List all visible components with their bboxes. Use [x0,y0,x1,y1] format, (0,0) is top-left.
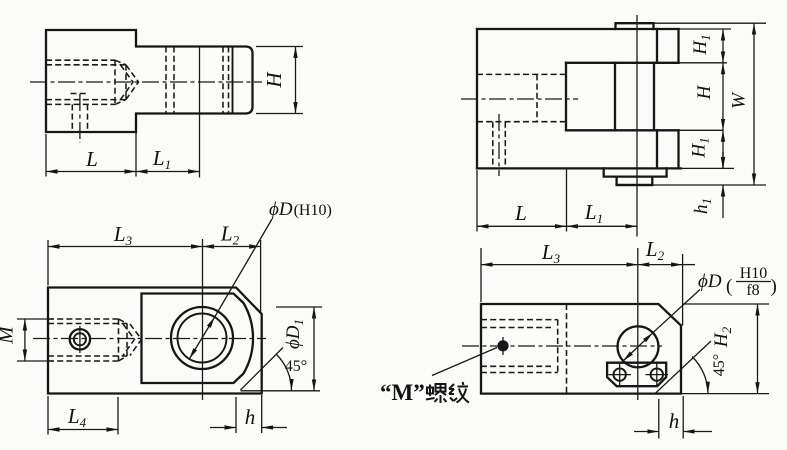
VIEW4 phiD leader tail to label [653,290,700,333]
VIEW4 45deg arc with arrow [692,357,708,394]
VIEW4 body outline with chamfer (top view) [481,304,681,394]
VIEW1 threaded bore hidden lines (major dia) [46,60,115,104]
VIEW4 dimension H2 extension lines [666,304,769,394]
VIEW2 top pin tab [616,23,654,29]
VIEW3 dimension L3/L2 extension lines [48,240,261,313]
VIEW2 tongue inner vertical [614,63,616,131]
VIEW4 hidden slot lines [481,320,558,373]
svg-text:L1: L1 [584,200,603,226]
VIEW4 bore circle [618,326,659,367]
VIEW1 threaded bore hidden lines (minor dia + thread end) [46,60,126,104]
VIEW1 dimension L line [46,171,136,173]
VIEW2 axis centerline [461,98,578,100]
VIEW2 pin axis extension line for L1 [636,15,638,237]
VIEW3 phiD(H10) leader with diameter arrows [189,317,214,359]
svg-text:45°: 45° [711,354,728,376]
VIEW3 bore outer circle [171,307,233,369]
VIEW3 dimension L3 line [48,246,203,248]
svg-text:(: ( [726,276,732,297]
svg-text:L3: L3 [541,240,561,266]
VIEW2 dimension H1 top line [722,29,724,63]
VIEW4 dimension h outside arrows [634,431,712,433]
svg-text:): ) [771,276,777,297]
VIEW2 dimension h1 outside arrows [722,152,724,218]
VIEW3 bore inner circle [178,314,227,363]
svg-text:L: L [514,201,527,225]
svg-text:45°: 45° [285,358,307,375]
VIEW1 dimension L1 line [136,171,200,173]
VIEW3 45deg baseline extension [241,390,321,392]
VIEW4 screw plate outline [607,363,666,387]
VIEW4 dimension H2 line [757,304,759,394]
VIEW3 dimension L4 line [48,429,118,431]
VIEW4 dimension L2 tail [683,264,695,266]
VIEW1 body outline (stepped shaft, front view) [46,30,253,132]
VIEW3 boss outline with arc [142,294,254,384]
VIEW3 dimension h outside arrows [210,427,287,429]
VIEW1 axis centerline [30,81,262,83]
VIEW3 dimension h extension lines [236,395,262,433]
VIEW1 dimension H extension lines [256,47,303,114]
VIEW2 bottom pin tab outer [604,168,667,176]
VIEW3 45deg callout diagonal [241,348,284,391]
VIEW2 bottom tab lower edge [617,184,653,186]
VIEW2 tongue top edge [566,62,679,64]
VIEW3 45deg arc with arrow [277,355,292,391]
svg-text:h: h [669,409,680,433]
VIEW2 right side extension lines for chained dims [652,23,766,185]
svg-text:H: H [262,71,286,89]
VIEW2 tongue bottom edge [566,129,679,131]
svg-text:W: W [729,91,750,109]
VIEW1 dimension H line [295,47,297,114]
VIEW4 screw hole left [614,368,626,380]
svg-text:ϕD: ϕD [698,271,722,292]
VIEW2 tongue left edge [565,63,567,131]
VIEW4 45deg callout diagonal [655,341,711,394]
VIEW2 dimension H1 bottom line [722,130,724,168]
VIEW4 screw hole right cross [646,364,669,387]
VIEW1 neck line on cylinder [232,47,234,114]
VIEW3 dimension phiD1 line [313,307,315,391]
VIEW4 M-thread dot vertical tick [502,337,504,355]
VIEW1 groove hidden lines near step [166,47,174,114]
VIEW3 M-thread hole outer circle [70,329,90,349]
svg-text:H: H [694,84,715,100]
VIEW4 M-thread dot (filled) [497,340,508,351]
svg-text:L3: L3 [113,222,133,248]
VIEW3 dimension L2 line [203,246,261,248]
svg-text:H10: H10 [740,265,768,282]
svg-text:H2: H2 [711,326,734,348]
VIEW4 hanzi WEN (pattern) drawn strokes [449,382,469,403]
VIEW3 body outline with chamfer (top view) [48,288,262,394]
VIEW2 left edge [476,29,478,168]
svg-text:H1: H1 [689,137,712,158]
VIEW3 dimension phiD1 extension line [276,306,322,308]
VIEW4 dimension L3 line [481,264,638,266]
svg-text:L1: L1 [152,146,171,172]
VIEW2 dimension L1 line [567,225,638,227]
VIEW3 hidden slot major dia [48,319,119,361]
VIEW2 dimension L extension lines [477,168,567,231]
VIEW4 dimension L3/L2 extension lines [481,248,683,326]
VIEW3 dimension L4 extension lines [48,396,118,435]
VIEW1 drill point cone hidden chevrons [121,65,139,100]
VIEW3 dimension M extension lines [17,319,53,361]
VIEW4 M-thread leader line [432,348,497,376]
VIEW4 phiD leader with diameter arrows [623,333,653,361]
VIEW1 vertical hole centerline [79,94,81,143]
VIEW1 groove hidden lines near end [223,47,229,114]
VIEW2 dimension H line [722,63,724,131]
VIEW2 lower arm inner vertical [656,130,658,168]
svg-text:h: h [245,405,256,429]
VIEW2 tongue right edge [653,63,655,131]
VIEW1 vertical hole bottom hidden line [71,93,89,95]
VIEW2 vertical hole centerline [498,114,500,176]
VIEW3 hidden drill cone chevrons [123,324,142,356]
svg-text:ϕD1: ϕD1 [283,319,306,349]
VIEW3 phiD(H10) leader tail to label [215,219,272,317]
VIEW2 hidden vertical hole [493,122,506,169]
VIEW3 M-thread hole inner circle [74,333,86,345]
svg-text:f8: f8 [746,282,759,299]
VIEW2 right edge upper band [677,29,679,63]
svg-text:“M”: “M” [380,380,425,405]
VIEW3 dimension M line [24,319,26,361]
VIEW3 horizontal centerline [33,338,266,340]
svg-text:L: L [85,147,98,171]
VIEW4 dimension h extension lines [659,396,683,439]
svg-text:ϕD(H10): ϕD(H10) [269,199,332,220]
VIEW4 hanzi LUO (thread) drawn strokes [426,384,447,403]
VIEW2 right edge lower band [677,130,679,168]
VIEW4 dimension L2 line [638,264,683,266]
VIEW2 bottom pin tab inner [617,177,653,185]
svg-text:L2: L2 [220,222,240,248]
VIEW1 extension line through cylinder for L1 [199,47,201,178]
VIEW2 dimension W line [753,23,755,185]
VIEW4 hidden step line full height [566,304,568,394]
VIEW2 upper arm inner vertical [656,29,658,63]
svg-text:h1: h1 [691,198,714,214]
VIEW2 bottom edge [477,167,681,169]
VIEW4 screw hole left cross [609,364,632,387]
svg-text:L4: L4 [67,404,87,430]
VIEW1 bottom vertical hole hidden lines [72,104,87,132]
VIEW4 horizontal centerline [462,345,662,347]
VIEW3 M-thread hole vertical tick [79,326,81,353]
VIEW3 bore vertical centerline / extension [202,239,204,400]
VIEW4 screw hole right [651,368,663,380]
VIEW2 body outline top edge [477,28,679,30]
VIEW2 dimension L line [477,225,567,227]
svg-text:M: M [0,325,18,345]
svg-text:L2: L2 [645,237,665,263]
VIEW4 bore vertical centerline / extension [637,248,639,400]
VIEW1 dimension L extension lines [46,132,136,177]
VIEW2 hidden slot rectangle [477,74,566,121]
VIEW3 hidden slot minor dia [48,319,127,361]
svg-text:H1: H1 [690,34,713,55]
